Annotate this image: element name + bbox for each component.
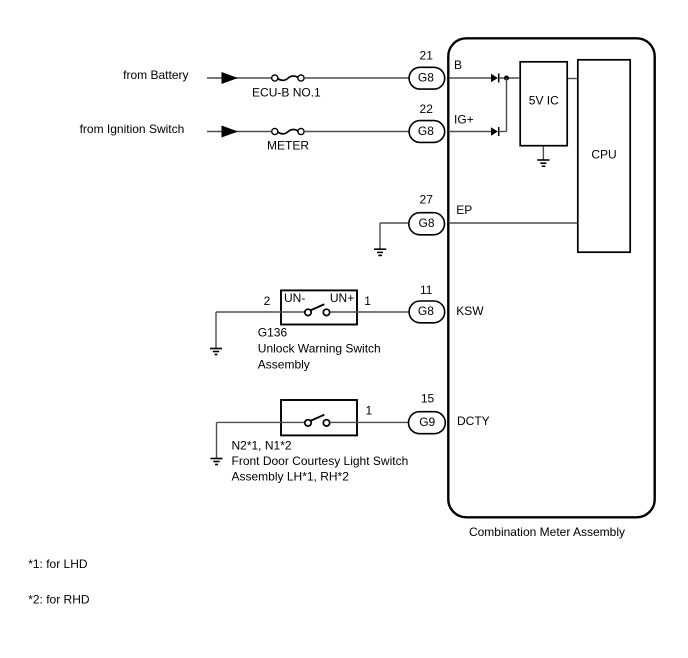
svg-text:2: 2 [264,294,271,308]
svg-text:ECU-B NO.1: ECU-B NO.1 [252,86,321,100]
svg-text:from Battery: from Battery [123,68,188,82]
svg-text:27: 27 [420,192,434,206]
svg-text:Assembly: Assembly [258,357,310,371]
svg-text:21: 21 [420,48,434,62]
svg-text:22: 22 [420,102,434,116]
svg-text:1: 1 [364,294,371,308]
svg-text:from Ignition Switch: from Ignition Switch [80,122,185,136]
svg-text:Assembly LH*1, RH*2: Assembly LH*1, RH*2 [232,470,350,484]
svg-text:UN+: UN+ [330,291,354,305]
svg-text:N2*1, N1*2: N2*1, N1*2 [232,439,292,453]
svg-text:Front Door Courtesy Light Swit: Front Door Courtesy Light Switch [232,454,409,468]
svg-text:UN-: UN- [284,291,305,305]
svg-text:*2: for RHD: *2: for RHD [28,592,90,606]
svg-text:B: B [454,58,462,72]
svg-text:EP: EP [456,203,472,217]
svg-text:G9: G9 [419,415,435,429]
svg-text:G136: G136 [258,325,288,339]
svg-text:G8: G8 [418,216,434,230]
svg-text:DCTY: DCTY [457,414,490,428]
svg-text:G8: G8 [418,124,434,138]
svg-text:G8: G8 [418,70,434,84]
svg-text:Unlock Warning Switch: Unlock Warning Switch [258,341,381,355]
svg-text:IG+: IG+ [454,113,474,127]
svg-text:G8: G8 [418,304,434,318]
svg-text:Combination Meter Assembly: Combination Meter Assembly [469,525,625,539]
svg-text:KSW: KSW [456,304,484,318]
svg-text:*1: for LHD: *1: for LHD [28,557,88,571]
svg-text:METER: METER [267,139,309,153]
svg-text:11: 11 [420,283,433,297]
svg-text:1: 1 [366,403,373,417]
svg-text:5V IC: 5V IC [529,94,559,108]
svg-text:15: 15 [421,392,435,406]
svg-text:CPU: CPU [591,147,616,161]
